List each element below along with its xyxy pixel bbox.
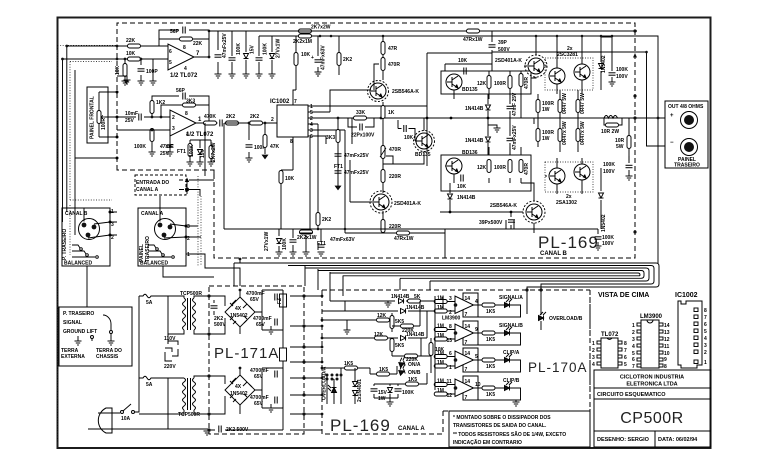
svg-text:4: 4 bbox=[475, 299, 478, 305]
svg-text:0R47 5W: 0R47 5W bbox=[580, 93, 586, 114]
diode 1N414B a bbox=[399, 299, 404, 304]
cap 10mF 25V bbox=[139, 114, 141, 121]
svg-text:3: 3 bbox=[187, 224, 190, 230]
svg-text:10K: 10K bbox=[301, 52, 311, 58]
svg-text:ELETRONICA LTDA: ELETRONICA LTDA bbox=[626, 382, 677, 388]
svg-text:2K2: 2K2 bbox=[322, 217, 331, 223]
title block box bbox=[594, 370, 711, 447]
resistor 5K5 b bbox=[390, 339, 394, 352]
comparator CLIP/B bbox=[455, 376, 478, 400]
svg-text:15V: 15V bbox=[250, 44, 256, 54]
svg-text:100K: 100K bbox=[189, 145, 195, 157]
comparator SIGNAL/A bbox=[455, 293, 478, 317]
output jack + bbox=[681, 112, 698, 129]
svg-text:2SB546A-K: 2SB546A-K bbox=[490, 203, 517, 209]
svg-text:10K: 10K bbox=[115, 65, 121, 75]
svg-text:10K: 10K bbox=[458, 58, 468, 64]
svg-text:1N414B: 1N414B bbox=[465, 138, 484, 144]
resistor 10K vertical to gnd bbox=[123, 64, 127, 77]
LED ON/A bbox=[398, 357, 408, 368]
feedback long wire bbox=[224, 123, 445, 229]
gnd under opamp1 bbox=[122, 81, 129, 85]
svg-text:1W: 1W bbox=[542, 107, 550, 113]
resistor 220R bottom bbox=[381, 220, 385, 233]
bridge rectifier 2 4X 1N5402 bbox=[225, 375, 255, 405]
svg-text:P. TRASEIRO: P. TRASEIRO bbox=[62, 229, 68, 260]
gnd row1 bbox=[385, 303, 392, 307]
svg-text:47mFx63V: 47mFx63V bbox=[330, 237, 355, 243]
svg-text:10K: 10K bbox=[404, 135, 414, 141]
resistor 220K b bbox=[405, 354, 418, 358]
svg-text:470R: 470R bbox=[524, 77, 530, 89]
bottom cluster gnd bbox=[387, 402, 394, 406]
svg-text:47R: 47R bbox=[388, 46, 398, 52]
svg-text:1W: 1W bbox=[378, 396, 386, 402]
svg-text:3: 3 bbox=[632, 337, 635, 343]
emitter resistors top: 100R 1W, 0R47 5W bbox=[538, 90, 578, 118]
junction arrow on dashed edge bbox=[633, 53, 637, 58]
svg-text:BD135: BD135 bbox=[415, 152, 431, 158]
svg-text:1N5402: 1N5402 bbox=[601, 55, 607, 73]
svg-text:1/2 TL072: 1/2 TL072 bbox=[170, 73, 198, 79]
fuse resistor FZ mid bbox=[280, 348, 287, 361]
svg-text:1: 1 bbox=[592, 341, 595, 347]
svg-text:14: 14 bbox=[465, 324, 471, 330]
svg-text:1K5: 1K5 bbox=[486, 309, 495, 315]
svg-text:P. TRASEIRO: P. TRASEIRO bbox=[63, 311, 94, 317]
wire opamp2 out to IC1002 bbox=[203, 123, 277, 158]
terra do chassis ground bbox=[108, 341, 115, 345]
svg-text:1/2 TL072: 1/2 TL072 bbox=[186, 132, 214, 138]
svg-text:12K: 12K bbox=[477, 165, 487, 171]
resistor 3K3 vert bbox=[336, 130, 340, 143]
svg-text:FT1: FT1 bbox=[317, 241, 326, 247]
bottom block: BD136 box bbox=[441, 155, 531, 191]
svg-text:1N414B: 1N414B bbox=[391, 294, 410, 300]
terra externa ground bbox=[77, 336, 79, 341]
resistor 470R top bbox=[381, 58, 385, 71]
cap 100P bbox=[138, 69, 145, 71]
cap row 100K bbox=[231, 31, 233, 74]
diodes 2x1N4001 bbox=[353, 382, 358, 387]
top right block: BD135 box bbox=[441, 71, 531, 94]
svg-text:47mF: 47mF bbox=[159, 144, 174, 150]
svg-text:14: 14 bbox=[664, 323, 670, 329]
vas wires bbox=[317, 124, 319, 250]
svg-text:1K5: 1K5 bbox=[486, 364, 495, 370]
cap 2K2 500V psu bottom bbox=[219, 426, 221, 433]
svg-text:2K2: 2K2 bbox=[250, 114, 259, 120]
top rail resistor 2K7x2W bbox=[299, 29, 312, 33]
svg-text:7: 7 bbox=[465, 340, 468, 346]
svg-text:CHASSIS: CHASSIS bbox=[96, 354, 119, 360]
resistor 10K mid bbox=[279, 171, 283, 184]
transistor BD135 top bbox=[446, 74, 462, 90]
LED overload/A bbox=[328, 385, 337, 393]
svg-text:3K3: 3K3 bbox=[186, 99, 195, 105]
bridge rectifier 1 4X 1N5402 bbox=[225, 297, 255, 327]
ENTRADA DO CANAL A box bbox=[135, 175, 186, 195]
transistor 2SB546A-K driver top bbox=[370, 83, 386, 99]
svg-text:220V: 220V bbox=[164, 364, 176, 370]
svg-text:ON/B: ON/B bbox=[408, 370, 421, 376]
svg-text:1N414B: 1N414B bbox=[465, 106, 484, 112]
resistor 220R top bbox=[381, 170, 385, 183]
output jack - bbox=[681, 139, 698, 156]
svg-text:DESENHO: SERGIO: DESENHO: SERGIO bbox=[597, 437, 650, 443]
svg-text:CICLOTRON INDUSTRIA: CICLOTRON INDUSTRIA bbox=[620, 375, 684, 381]
svg-text:10: 10 bbox=[475, 382, 481, 388]
svg-text:47mFx25V: 47mFx25V bbox=[512, 125, 518, 150]
svg-text:7: 7 bbox=[465, 395, 468, 401]
svg-text:110V: 110V bbox=[164, 336, 176, 342]
bottom cluster cap b bbox=[395, 389, 402, 391]
svg-text:CANAL B: CANAL B bbox=[540, 251, 568, 257]
svg-text:2: 2 bbox=[632, 330, 635, 336]
svg-text:PL-169: PL-169 bbox=[330, 416, 391, 435]
svg-text:5: 5 bbox=[169, 60, 172, 66]
svg-text:PL-171A: PL-171A bbox=[214, 345, 279, 362]
opamp U1A 1/2 TL072 bbox=[168, 44, 194, 70]
opamp1 wires bbox=[63, 30, 210, 235]
svg-text:4: 4 bbox=[592, 362, 595, 368]
cap 100P at IC input bbox=[246, 145, 253, 147]
svg-text:27Vx1W: 27Vx1W bbox=[264, 232, 270, 251]
svg-text:1K: 1K bbox=[388, 110, 395, 116]
svg-text:PL-170A: PL-170A bbox=[528, 360, 588, 375]
fuse 5A upper bbox=[139, 294, 168, 298]
svg-text:47mFx63V: 47mFx63V bbox=[321, 45, 327, 70]
svg-text:IC1002: IC1002 bbox=[675, 292, 698, 299]
svg-text:BALANCED: BALANCED bbox=[64, 261, 92, 267]
canal B XLR box bbox=[62, 208, 110, 266]
resistor 100R top bbox=[508, 76, 512, 89]
svg-text:4X: 4X bbox=[235, 384, 242, 390]
svg-text:65V: 65V bbox=[256, 322, 266, 328]
svg-text:33K: 33K bbox=[356, 110, 366, 116]
svg-text:47mFx25V: 47mFx25V bbox=[222, 33, 228, 58]
wires top driver bbox=[330, 55, 383, 129]
resistor 10R 5W bbox=[628, 118, 630, 160]
svg-text:3: 3 bbox=[172, 126, 175, 132]
svg-text:DATA: 06/02/94: DATA: 06/02/94 bbox=[658, 437, 698, 443]
svg-text:220R: 220R bbox=[389, 174, 401, 180]
input resistors 1M SIGNAL/A bbox=[434, 300, 447, 304]
junction dots input bbox=[61, 30, 210, 61]
svg-text:8: 8 bbox=[664, 364, 667, 370]
canal A pins bbox=[187, 224, 190, 258]
svg-text:OVERLOAD/B: OVERLOAD/B bbox=[549, 316, 583, 322]
transformer T2 wires bbox=[139, 376, 209, 414]
svg-text:2SB546A-K: 2SB546A-K bbox=[392, 89, 419, 95]
svg-text:TRASEIRO: TRASEIRO bbox=[674, 163, 700, 169]
svg-text:22Px100V: 22Px100V bbox=[351, 133, 375, 139]
overload/B led bbox=[539, 312, 547, 321]
svg-text:2SA1302: 2SA1302 bbox=[556, 200, 577, 206]
bottom cluster cap 47uF bbox=[371, 389, 378, 391]
feedback cap 56P bbox=[183, 27, 185, 34]
cap 100K 100V out bbox=[628, 156, 630, 176]
svg-text:12K: 12K bbox=[477, 81, 487, 87]
PL-169 canal A board outline bbox=[322, 290, 590, 434]
svg-text:2SC3281: 2SC3281 bbox=[557, 52, 578, 58]
gnd mid column bbox=[494, 128, 501, 132]
svg-text:1: 1 bbox=[187, 252, 190, 258]
resistor 1K bbox=[381, 106, 385, 119]
canal A XLR box bbox=[138, 208, 186, 266]
svg-text:7: 7 bbox=[465, 312, 468, 318]
zener 15V bbox=[245, 31, 247, 74]
svg-text:1N414B: 1N414B bbox=[457, 195, 476, 201]
cap 10K bottom bbox=[461, 175, 463, 182]
painel traseiro output box bbox=[665, 101, 708, 168]
svg-text:CANAL A: CANAL A bbox=[398, 426, 425, 432]
P. TRASEIRO ground lift box bbox=[59, 307, 132, 366]
resistor 33K + cap 22Px100V bbox=[354, 116, 367, 120]
caps row mid bottom: 27Vx1W zener, 100K, 2K2x1W, FT1 47mFx63V bbox=[279, 229, 321, 252]
mains plug bbox=[88, 408, 112, 433]
svg-text:1N5402: 1N5402 bbox=[230, 313, 248, 319]
feedback resistor 22K bbox=[180, 37, 193, 41]
svg-text:5: 5 bbox=[624, 362, 627, 368]
svg-text:3: 3 bbox=[704, 343, 707, 349]
svg-text:100P: 100P bbox=[146, 69, 158, 75]
svg-text:1K5: 1K5 bbox=[486, 392, 495, 398]
svg-text:0R47 5W: 0R47 5W bbox=[562, 93, 568, 114]
svg-text:500V: 500V bbox=[214, 322, 226, 328]
svg-text:LM3900: LM3900 bbox=[442, 316, 461, 322]
svg-text:2K7x2W: 2K7x2W bbox=[311, 25, 331, 31]
svg-text:OUT 4/8 OHMS: OUT 4/8 OHMS bbox=[668, 104, 704, 110]
svg-text:7: 7 bbox=[294, 99, 297, 105]
caps 47mF 25V mid bbox=[509, 94, 511, 155]
shield dotted lines bbox=[58, 45, 202, 443]
svg-text:1W: 1W bbox=[542, 136, 550, 142]
emitter resistors bottom bbox=[538, 118, 578, 152]
svg-text:1N414B: 1N414B bbox=[406, 332, 425, 338]
svg-text:500V: 500V bbox=[498, 47, 510, 53]
svg-text:1K5: 1K5 bbox=[486, 337, 495, 343]
border frame bbox=[58, 18, 711, 449]
opamp U1B 1/2 TL072 bbox=[170, 110, 196, 136]
PL-169 canal B board outline bbox=[117, 23, 635, 258]
cap row 47mF/25V bbox=[217, 31, 219, 74]
svg-text:100K: 100K bbox=[282, 238, 288, 250]
cap 10K bias bbox=[404, 125, 406, 132]
svg-text:14: 14 bbox=[465, 351, 471, 357]
mains wires bbox=[88, 296, 209, 429]
svg-text:100K: 100K bbox=[603, 162, 615, 168]
svg-text:9: 9 bbox=[475, 327, 478, 333]
svg-text:65V: 65V bbox=[250, 297, 260, 303]
svg-text:100K: 100K bbox=[236, 43, 242, 55]
svg-text:100V: 100V bbox=[616, 74, 628, 80]
svg-text:1N5402: 1N5402 bbox=[601, 214, 607, 232]
zener 27Vx1W bbox=[271, 36, 273, 74]
resistor 47K at IC input bbox=[264, 123, 266, 154]
svg-text:10K: 10K bbox=[126, 51, 136, 57]
svg-text:100R: 100R bbox=[494, 81, 506, 87]
resistor 470R top out bbox=[519, 74, 523, 87]
svg-text:100R: 100R bbox=[494, 165, 506, 171]
svg-text:0R47x 5W: 0R47x 5W bbox=[580, 121, 586, 145]
cap 47mFx25V a bbox=[335, 154, 342, 156]
svg-text:5: 5 bbox=[475, 354, 478, 360]
svg-text:22K: 22K bbox=[126, 38, 136, 44]
svg-text:39Px500V: 39Px500V bbox=[479, 220, 503, 226]
resistor 22K input bbox=[128, 44, 141, 48]
svg-text:2: 2 bbox=[592, 348, 595, 354]
svg-text:11: 11 bbox=[664, 344, 670, 350]
IC1002 box bbox=[277, 105, 308, 137]
canal A TRS jack bbox=[148, 245, 174, 258]
svg-text:5K5: 5K5 bbox=[395, 343, 404, 349]
IC1002 pin labels right bbox=[310, 104, 313, 140]
svg-text:100V: 100V bbox=[603, 169, 615, 175]
resistor 2K2 rail bbox=[337, 53, 341, 66]
IC1002 top view bbox=[678, 301, 702, 368]
svg-text:1M: 1M bbox=[437, 379, 444, 385]
svg-text:5A: 5A bbox=[146, 382, 153, 388]
svg-text:8: 8 bbox=[624, 341, 627, 347]
svg-text:ENTRADA DO: ENTRADA DO bbox=[136, 180, 169, 186]
svg-text:1: 1 bbox=[632, 323, 635, 329]
diode 1N414B c bbox=[401, 336, 406, 341]
fuse resistor FZ top bbox=[280, 294, 287, 307]
painel frontal box bbox=[87, 87, 108, 143]
transistor BD136 bbox=[446, 158, 462, 174]
svg-text:1M: 1M bbox=[437, 388, 444, 394]
cap 470K series bbox=[204, 121, 217, 125]
fuse 5A lower bbox=[139, 376, 168, 380]
svg-text:6: 6 bbox=[632, 357, 635, 363]
resistor 470R bottom out bbox=[519, 160, 523, 173]
resistor 47Rx1W fb bbox=[397, 231, 410, 235]
resistor 2K2 a bbox=[226, 121, 239, 125]
comparator SIGNAL/B bbox=[455, 321, 478, 345]
svg-text:0R47x 5W: 0R47x 5W bbox=[562, 121, 568, 145]
svg-text:10R 2W: 10R 2W bbox=[601, 129, 619, 135]
resistor 5K bbox=[408, 299, 421, 303]
PL-171A power supply board outline bbox=[209, 286, 304, 434]
canal B TRS jack bbox=[72, 245, 98, 258]
resistor 2K2x1W bbox=[299, 34, 312, 38]
resistor 2K2 vas bbox=[316, 213, 320, 226]
svg-text:CP500R: CP500R bbox=[620, 410, 683, 427]
top rails bbox=[209, 31, 665, 263]
svg-text:1: 1 bbox=[704, 360, 707, 366]
svg-text:5A: 5A bbox=[146, 300, 153, 306]
ground lift switch bbox=[91, 315, 113, 341]
svg-text:8: 8 bbox=[183, 45, 186, 51]
resistor 220K a bbox=[401, 324, 414, 328]
resistor 100K in2 bbox=[150, 129, 154, 142]
svg-text:4: 4 bbox=[704, 336, 707, 342]
svg-text:IC1002: IC1002 bbox=[270, 99, 290, 105]
svg-text:TRANSISTORES DE SAIDA DO C: TRANSISTORES DE SAIDA DO CANAL. bbox=[453, 423, 547, 429]
diode 1N414B lower bbox=[448, 194, 453, 199]
svg-text:TRASEIRO: TRASEIRO bbox=[145, 236, 151, 262]
svg-text:1N5402: 1N5402 bbox=[230, 391, 248, 397]
voltage selector 110V/220V bbox=[165, 341, 178, 361]
svg-text:47K: 47K bbox=[270, 144, 280, 150]
svg-text:100V: 100V bbox=[602, 241, 614, 247]
canal A row1 wire bbox=[330, 301, 435, 303]
svg-text:14: 14 bbox=[465, 379, 471, 385]
svg-text:6: 6 bbox=[624, 355, 627, 361]
diode 1N5402 top bbox=[600, 36, 602, 90]
svg-text:SIGNAL: SIGNAL bbox=[63, 320, 82, 326]
svg-text:4: 4 bbox=[632, 344, 635, 350]
svg-text:PL-169: PL-169 bbox=[538, 233, 599, 252]
svg-text:BD136: BD136 bbox=[462, 150, 478, 156]
input resistors 1M CLIP/A bbox=[434, 355, 447, 359]
svg-text:47Rx1W: 47Rx1W bbox=[394, 236, 414, 242]
svg-text:BALANCED: BALANCED bbox=[140, 261, 168, 267]
diode 1N414B b bbox=[401, 309, 406, 314]
wire XLR B to ground lift bbox=[87, 212, 240, 307]
svg-text:27Vx1W: 27Vx1W bbox=[276, 39, 282, 58]
svg-text:FT1: FT1 bbox=[177, 149, 186, 155]
svg-text:2: 2 bbox=[111, 235, 114, 241]
psu ground b bbox=[268, 408, 275, 412]
svg-text:9: 9 bbox=[664, 357, 667, 363]
opamp2 wires bbox=[117, 96, 209, 152]
svg-text:12: 12 bbox=[664, 337, 670, 343]
svg-text:* MONTADO SOBRE O DISSIPADO: * MONTADO SOBRE O DISSIPADOR DOS bbox=[453, 415, 551, 421]
svg-text:1N414B: 1N414B bbox=[406, 305, 425, 311]
svg-text:39P: 39P bbox=[498, 40, 508, 46]
cap FT1 47mFx25V b bbox=[335, 171, 342, 173]
svg-text:2x1N4001: 2x1N4001 bbox=[357, 379, 363, 402]
gnd 12K a bbox=[344, 330, 351, 334]
LED ON/B bbox=[398, 365, 408, 376]
svg-text:** TODOS RESISTORES SÃO DE: ** TODOS RESISTORES SÃO DE 1/4W, EXCETO bbox=[453, 431, 566, 438]
svg-text:5: 5 bbox=[704, 329, 707, 335]
svg-text:2: 2 bbox=[271, 117, 274, 123]
svg-text:10A: 10A bbox=[121, 416, 131, 422]
diodes 1N414B mid column bbox=[450, 94, 497, 212]
svg-text:470R: 470R bbox=[524, 163, 530, 175]
svg-text:100K: 100K bbox=[402, 390, 414, 396]
svg-text:470R: 470R bbox=[389, 147, 401, 153]
transistor 2SD401A-K driver bottom bbox=[373, 194, 389, 210]
cap 47mF/63V rail bbox=[315, 60, 322, 62]
mains switch 10A bbox=[121, 404, 135, 414]
svg-text:1M: 1M bbox=[437, 324, 444, 330]
svg-text:BD135: BD135 bbox=[462, 87, 478, 93]
svg-text:6: 6 bbox=[169, 49, 172, 55]
svg-text:INDICAÇÃO EM CONTRARIO: INDICAÇÃO EM CONTRARIO bbox=[453, 439, 522, 446]
svg-text:2K2: 2K2 bbox=[226, 114, 235, 120]
transistor BD135 bias bbox=[416, 133, 432, 149]
svg-text:3: 3 bbox=[592, 355, 595, 361]
resistor 10K canalA bbox=[429, 343, 433, 356]
cap 56P fb2 bbox=[183, 93, 185, 100]
svg-text:EXTERNA: EXTERNA bbox=[61, 354, 85, 360]
svg-text:22K: 22K bbox=[193, 41, 203, 47]
svg-text:1M: 1M bbox=[437, 360, 444, 366]
svg-text:CIRCUITO ESQUEMATICO: CIRCUITO ESQUEMATICO bbox=[597, 392, 666, 398]
canal A XLR connector bbox=[155, 219, 176, 240]
transformer T2 TCP500R bbox=[183, 378, 196, 410]
resistor 12K top bbox=[487, 76, 491, 89]
svg-text:1M: 1M bbox=[437, 333, 444, 339]
svg-text:5K: 5K bbox=[414, 294, 421, 300]
svg-text:2SD401A-K: 2SD401A-K bbox=[495, 58, 522, 64]
svg-text:100K: 100K bbox=[616, 67, 628, 73]
canal A row2 wire bbox=[348, 310, 435, 312]
